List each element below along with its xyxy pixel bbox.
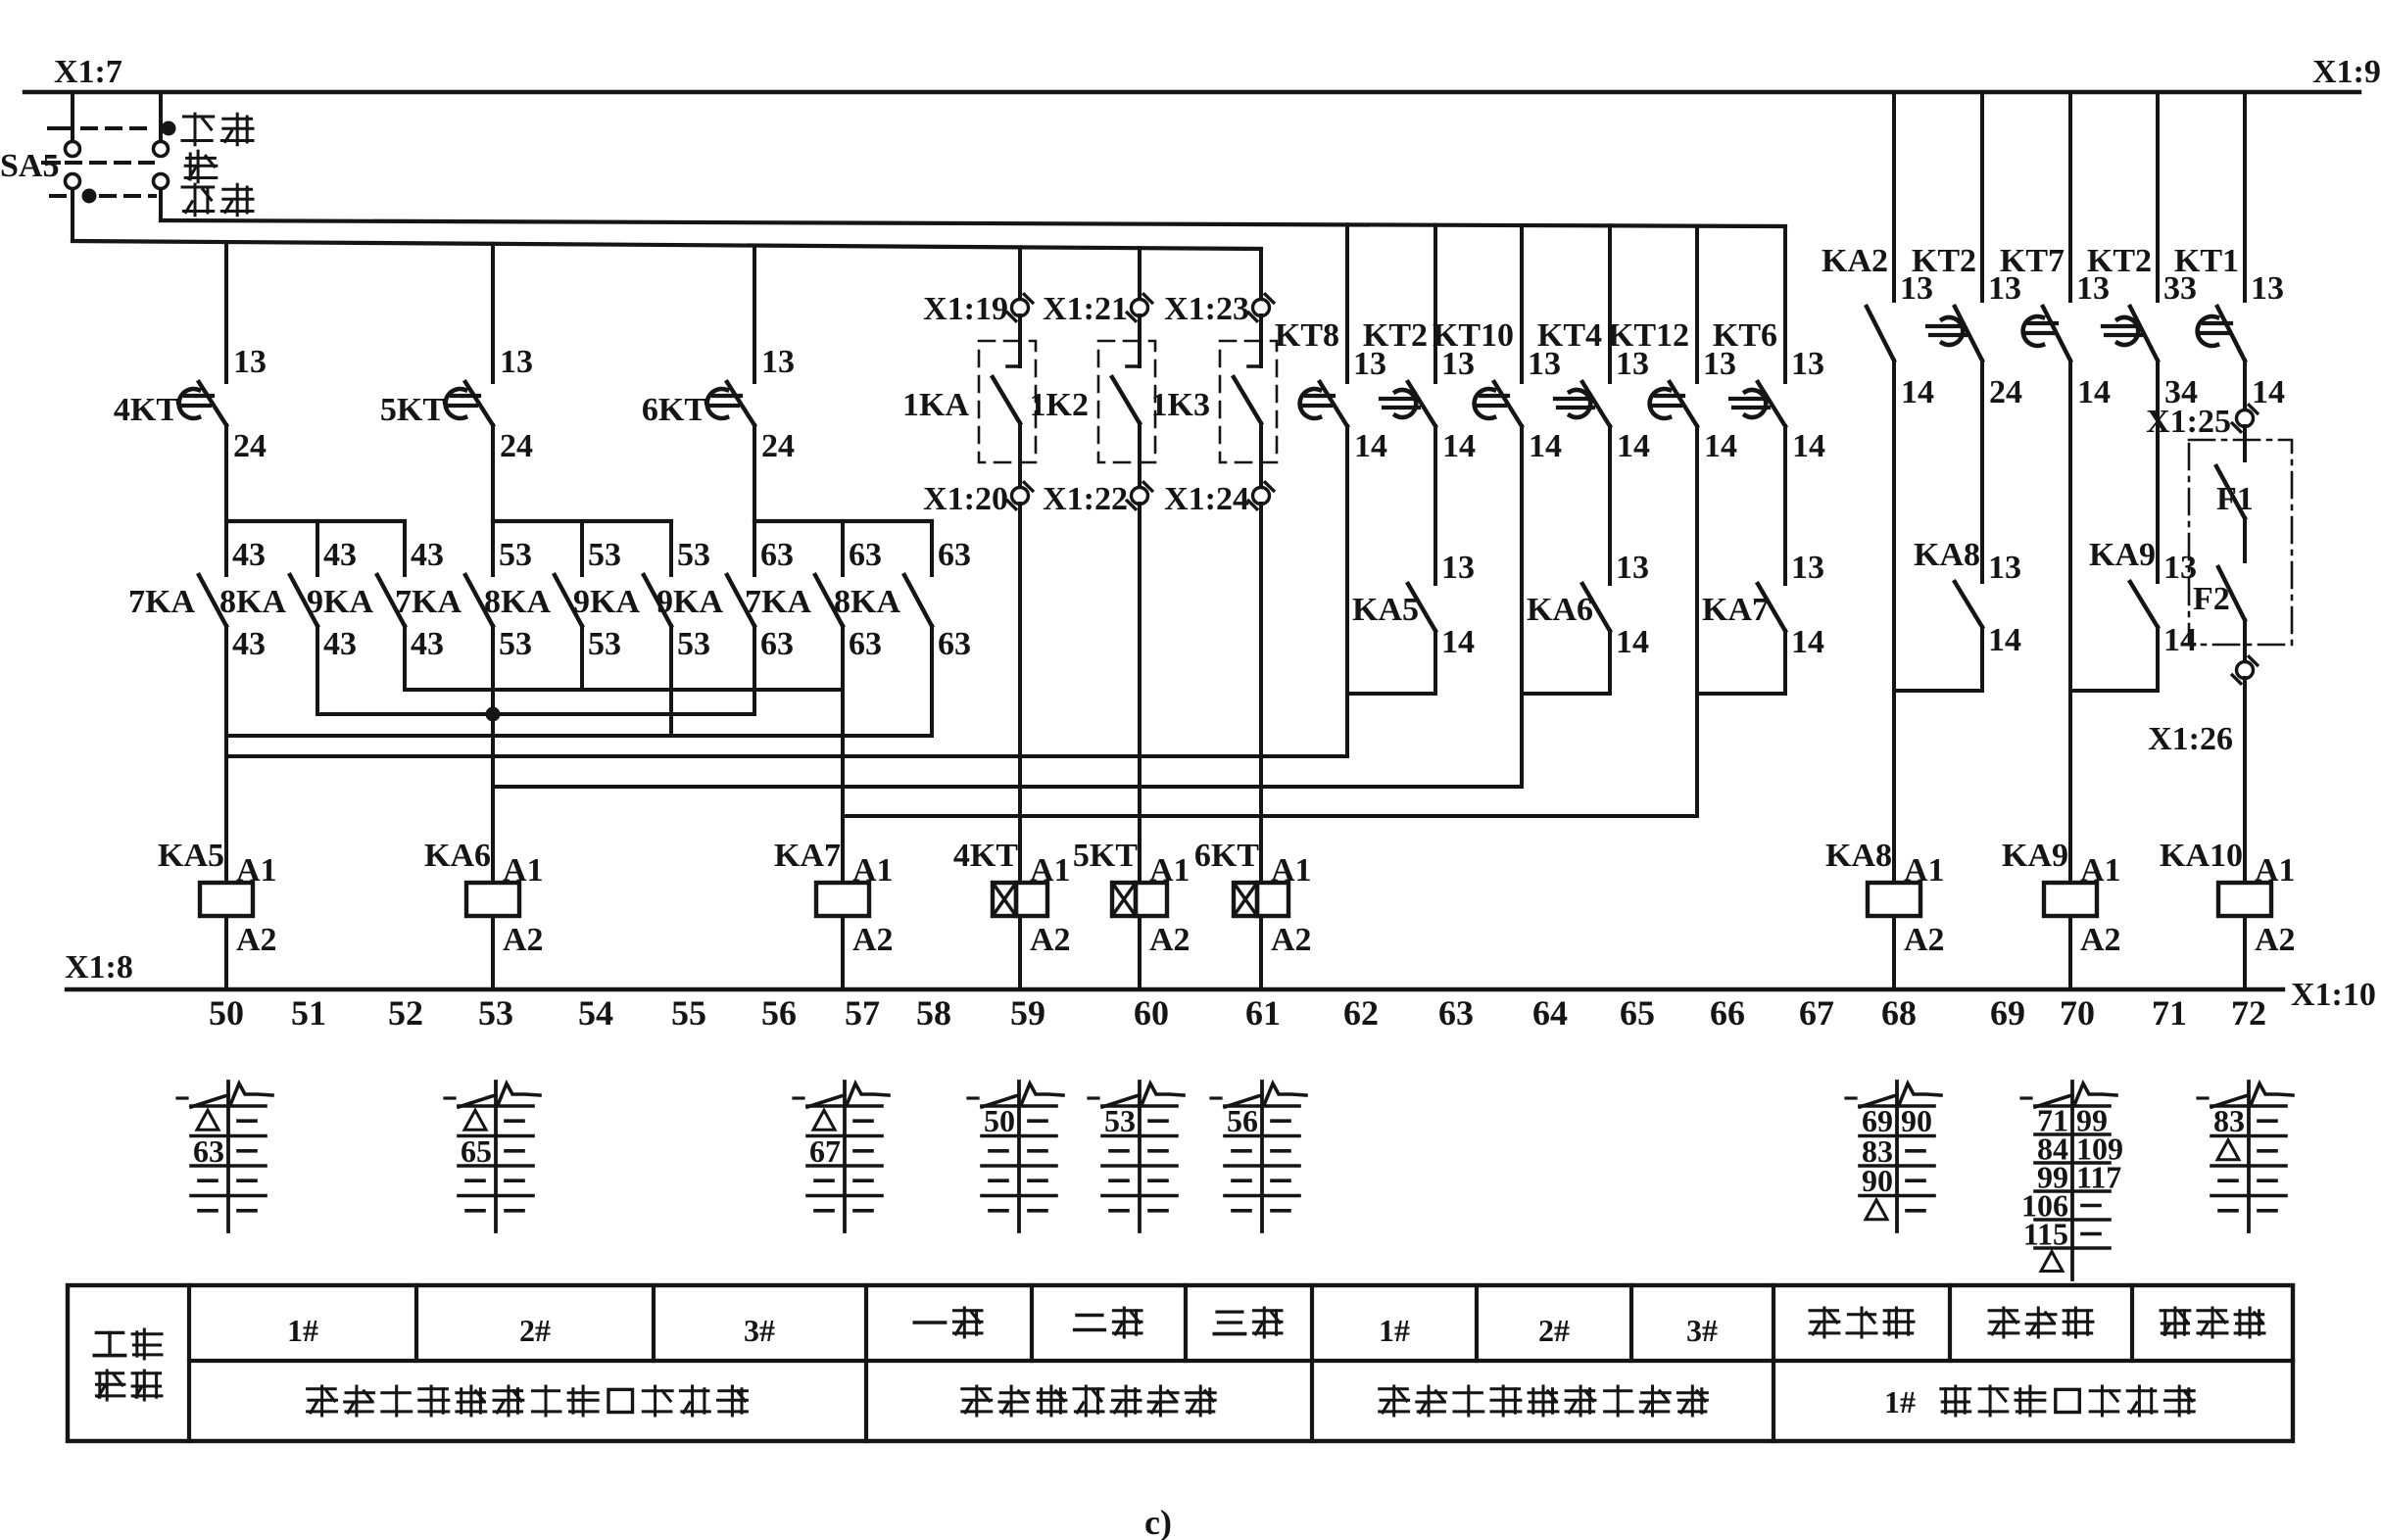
svg-text:14: 14	[1616, 624, 1649, 660]
svg-text:KT10: KT10	[1433, 317, 1514, 354]
wire: branch bus of 5KT group	[493, 519, 671, 523]
terminal X1:26	[2148, 656, 2258, 883]
contact 9KA (63) in 6KT group	[656, 521, 794, 662]
svg-text:58: 58	[916, 993, 951, 1033]
svg-text:63: 63	[760, 537, 794, 573]
svg-text:X1:8: X1:8	[65, 949, 133, 986]
contact 7KA (43) in 4KT group	[128, 521, 266, 662]
svg-text:9KA: 9KA	[307, 584, 373, 620]
svg-text:KA10: KA10	[2160, 838, 2243, 874]
svg-text:59: 59	[1010, 993, 1045, 1033]
svg-text:KA2: KA2	[1822, 243, 1888, 279]
terminal X1:23	[1164, 249, 1274, 327]
table cell 工况选择	[94, 1329, 162, 1400]
svg-text:90: 90	[1901, 1103, 1932, 1138]
svg-text:53: 53	[677, 537, 710, 573]
wire: KA5 column down to coil	[224, 626, 228, 883]
svg-text:1K2: 1K2	[1030, 387, 1089, 423]
table cell 冷却塔风机转换环节	[1380, 1386, 1708, 1416]
svg-text:9KA: 9KA	[573, 584, 640, 620]
interlock contact 1K2 (dashed box)	[1030, 315, 1155, 488]
table cell 1#(b)	[1379, 1313, 1410, 1348]
svg-text:KA9: KA9	[2089, 537, 2156, 573]
contact KT10 (timed, 13-14)	[1433, 225, 1562, 464]
table cell 2#(b)	[1538, 1313, 1570, 1348]
svg-text:63: 63	[760, 626, 794, 662]
svg-text:83: 83	[2213, 1103, 2245, 1138]
wire: KA7 column down to coil	[841, 626, 845, 883]
terminal X1:20	[923, 481, 1033, 883]
svg-text:67: 67	[809, 1133, 841, 1169]
svg-text:KT8: KT8	[1275, 317, 1339, 354]
contact 5KT (delayed NO, 13-24)	[380, 244, 533, 521]
svg-text:65: 65	[461, 1133, 492, 1169]
coil KA10	[2160, 838, 2296, 989]
coil KA7	[774, 838, 894, 989]
coil 5KT (time relay)	[1073, 838, 1190, 989]
svg-text:64: 64	[1532, 993, 1568, 1033]
terminal X1:25	[2146, 361, 2258, 440]
svg-text:62: 62	[1343, 993, 1379, 1033]
svg-text:71: 71	[2152, 993, 2187, 1033]
svg-text:14: 14	[1988, 622, 2021, 658]
contact 9KA (43) in 4KT group	[307, 521, 444, 662]
svg-text:61: 61	[1245, 993, 1281, 1033]
table cell 冷却泵	[1989, 1308, 2093, 1337]
caption c)	[1144, 1503, 1172, 1540]
svg-text:6KT: 6KT	[642, 392, 706, 428]
contact KT12 (timed, 13-14)	[1608, 226, 1737, 464]
switch SA5 (3-position selector)	[43, 92, 176, 241]
svg-text:70: 70	[2060, 993, 2095, 1033]
contact KT2 (13-24)	[1912, 92, 2022, 410]
contact KT6 (timed, 13-14)	[1713, 226, 1825, 464]
svg-text:63: 63	[1438, 993, 1474, 1033]
svg-text:43: 43	[411, 626, 444, 662]
cross-ref table KA9	[2021, 1082, 2123, 1279]
svg-text:13: 13	[2163, 550, 2197, 586]
svg-text:3#: 3#	[744, 1313, 775, 1348]
svg-text:X1:24: X1:24	[1164, 481, 1249, 517]
svg-text:X1:26: X1:26	[2148, 721, 2233, 757]
svg-text:KT12: KT12	[1608, 317, 1689, 354]
svg-text:1#: 1#	[1884, 1384, 1916, 1420]
wire: top supply rail X1:7 to X1:9	[24, 90, 2359, 94]
coil 6KT (time relay)	[1194, 838, 1312, 989]
svg-text:53: 53	[588, 537, 621, 573]
cross-ref table 5KT	[1089, 1082, 1184, 1231]
cross-ref table KA10	[2198, 1082, 2293, 1231]
svg-text:KA7: KA7	[774, 838, 841, 874]
wire: KA7 to KT12-branch (L6)	[843, 814, 1697, 818]
cross-ref table KA6	[445, 1082, 540, 1231]
svg-text:14: 14	[1791, 624, 1824, 660]
svg-text:14: 14	[1901, 374, 1934, 410]
svg-text:5KT: 5KT	[380, 392, 445, 428]
table cell 1#(a)	[287, 1313, 318, 1348]
svg-text:53: 53	[499, 537, 532, 573]
svg-text:52: 52	[388, 993, 423, 1033]
svg-text:X1:19: X1:19	[923, 291, 1008, 327]
svg-text:X1:22: X1:22	[1043, 481, 1128, 517]
terminal label X1:7	[54, 54, 122, 90]
svg-text:14: 14	[1792, 428, 1825, 464]
svg-text:53: 53	[478, 993, 513, 1033]
svg-text:8KA: 8KA	[834, 584, 900, 620]
svg-text:53: 53	[677, 626, 710, 662]
svg-text:KA8: KA8	[1825, 838, 1892, 874]
wire: bottom rail X1:8 to X1:10	[67, 987, 2283, 991]
svg-text:KT2: KT2	[2087, 243, 2152, 279]
svg-text:56: 56	[761, 993, 797, 1033]
svg-text:A2: A2	[1904, 922, 1945, 958]
wire: KT8 column to L4	[1345, 426, 1349, 756]
svg-text:4KT: 4KT	[953, 838, 1018, 874]
svg-text:8KA: 8KA	[219, 584, 286, 620]
label 停	[185, 151, 217, 182]
wire: bus line B (from SA5 row-3)	[73, 241, 1261, 249]
interlock contact 1K3 (dashed box)	[1151, 315, 1277, 488]
svg-text:4KT: 4KT	[114, 392, 178, 428]
svg-text:50: 50	[209, 993, 244, 1033]
svg-text:2#: 2#	[519, 1313, 551, 1348]
contact KA2 (13-14)	[1822, 92, 1934, 410]
contact 6KT (delayed NO, 13-24)	[642, 246, 795, 521]
svg-text:KA9: KA9	[2002, 838, 2068, 874]
contact 4KT (delayed NO, 13-24)	[114, 242, 267, 521]
svg-text:1KA: 1KA	[902, 387, 969, 423]
contact 8KA (53) in 5KT group	[484, 521, 621, 662]
protection contacts F1, F2 (dash-dot box)	[2189, 426, 2292, 662]
wire: KT12 column to L6	[1695, 426, 1699, 816]
contact KT1 (13-14)	[2174, 92, 2285, 410]
svg-text:14: 14	[1617, 428, 1650, 464]
table cell 2#(a)	[519, 1313, 551, 1348]
svg-text:54: 54	[578, 993, 613, 1033]
wire: 8KA(43)-KA6-9KA(63) link (L2)	[317, 626, 754, 722]
contact KA6 (seal-in, 13-14) with link wire	[1522, 426, 1649, 694]
svg-text:KA8: KA8	[1914, 537, 1980, 573]
terminal X1:19	[923, 247, 1033, 327]
svg-text:115: 115	[2023, 1217, 2068, 1252]
svg-text:X1:23: X1:23	[1164, 291, 1249, 327]
svg-text:90: 90	[1862, 1163, 1893, 1198]
contact KT4 (timed, 13-14)	[1537, 225, 1650, 464]
svg-text:14: 14	[1441, 624, 1475, 660]
svg-text:24: 24	[233, 428, 267, 464]
contact 7KA (53) in 5KT group	[395, 521, 532, 662]
svg-text:14: 14	[2252, 374, 2285, 410]
wire: KA5 to KT8-branch (L4)	[226, 754, 1347, 758]
svg-text:67: 67	[1799, 993, 1834, 1033]
svg-text:117: 117	[2076, 1160, 2121, 1195]
svg-text:X1:10: X1:10	[2291, 977, 2376, 1013]
svg-text:43: 43	[232, 626, 266, 662]
svg-text:63: 63	[938, 537, 971, 573]
wire: KA2 column down to KA8 coil	[1892, 361, 1896, 883]
svg-text:13: 13	[1791, 550, 1824, 586]
svg-text:68: 68	[1881, 993, 1917, 1033]
cross-ref table KA8	[1846, 1082, 1941, 1231]
table cell 制冷机	[2161, 1308, 2264, 1337]
svg-text:24: 24	[500, 428, 533, 464]
svg-text:24: 24	[761, 428, 795, 464]
svg-text:KA5: KA5	[1352, 592, 1419, 628]
svg-text:69: 69	[1990, 993, 2025, 1033]
svg-text:13: 13	[500, 344, 533, 380]
terminal label X1:10	[2291, 977, 2376, 1013]
svg-text:13: 13	[1616, 550, 1649, 586]
svg-text:60: 60	[1134, 993, 1169, 1033]
svg-text:13: 13	[233, 344, 267, 380]
svg-text:KT2: KT2	[1912, 243, 1976, 279]
svg-text:72: 72	[2231, 993, 2266, 1033]
svg-text:A2: A2	[852, 922, 894, 958]
svg-text:14: 14	[1442, 428, 1476, 464]
terminal X1:24	[1164, 481, 1274, 883]
contact 8KA (63) in 6KT group	[834, 521, 971, 662]
wire: KA6 to KT10-branch (L5)	[493, 785, 1522, 789]
svg-text:7KA: 7KA	[745, 584, 811, 620]
svg-text:13: 13	[1791, 346, 1824, 382]
terminal label X1:9	[2312, 54, 2381, 90]
contact KA8 (seal-in) with link wire	[1894, 361, 2021, 691]
terminal X1:22	[1043, 481, 1152, 883]
svg-text:A2: A2	[2080, 922, 2121, 958]
svg-text:66: 66	[1710, 993, 1745, 1033]
svg-text:5KT: 5KT	[1073, 838, 1138, 874]
contact 7KA (63) in 6KT group	[745, 521, 882, 662]
cross-ref table 4KT	[968, 1082, 1063, 1231]
coil KA6	[424, 838, 544, 989]
svg-text:43: 43	[232, 537, 266, 573]
coil KA8	[1825, 838, 1945, 989]
cross-ref table KA5	[177, 1082, 272, 1231]
cross-ref table KA7	[794, 1082, 889, 1231]
svg-text:56: 56	[1227, 1103, 1258, 1138]
svg-text:57: 57	[845, 993, 880, 1033]
svg-text:KA5: KA5	[158, 838, 224, 874]
svg-text:A2: A2	[2255, 922, 2296, 958]
svg-text:A2: A2	[236, 922, 277, 958]
svg-text:14: 14	[1354, 428, 1387, 464]
svg-text:8KA: 8KA	[484, 584, 551, 620]
svg-text:X1:25: X1:25	[2146, 404, 2231, 440]
svg-text:53: 53	[1104, 1103, 1136, 1138]
svg-text:A2: A2	[1149, 922, 1190, 958]
table cell 冷却水温控环节	[962, 1386, 1215, 1416]
svg-text:43: 43	[323, 626, 357, 662]
svg-text:63: 63	[193, 1133, 224, 1169]
svg-text:51: 51	[291, 993, 326, 1033]
svg-text:65: 65	[1620, 993, 1655, 1033]
wire: KA5-9KA(53)-8KA(63) link (L3)	[226, 626, 932, 736]
svg-text:KA7: KA7	[1702, 592, 1769, 628]
wire: branch bus of 6KT group	[754, 519, 932, 523]
svg-text:7KA: 7KA	[395, 584, 462, 620]
label 顺控	[182, 114, 253, 145]
contact KA9 (seal-in) with link wire	[2070, 361, 2197, 691]
svg-text:X1:21: X1:21	[1043, 291, 1128, 327]
svg-text:13: 13	[761, 344, 795, 380]
wire: branch bus of 4KT group	[226, 519, 405, 523]
svg-text:KA6: KA6	[1527, 592, 1593, 628]
wire: bus line A (from SA5 row-1)	[161, 220, 1785, 226]
svg-text:14: 14	[1529, 428, 1562, 464]
contact KT8 (timed, 13-14)	[1275, 224, 1387, 464]
svg-text:6KT: 6KT	[1194, 838, 1259, 874]
svg-text:55: 55	[671, 993, 706, 1033]
svg-text:KT4: KT4	[1537, 317, 1602, 354]
contact 9KA (53) in 5KT group	[573, 521, 710, 662]
svg-text:KT2: KT2	[1363, 317, 1428, 354]
table cell 冷却塔风机转换出口继电器	[308, 1386, 748, 1416]
svg-text:SA5: SA5	[0, 148, 59, 184]
wire: KT7 column down to KA9 coil	[2068, 361, 2072, 883]
svg-text:A2: A2	[1271, 922, 1312, 958]
svg-text:43: 43	[411, 537, 444, 573]
contact KT2 (timed, 13-14)	[1363, 225, 1476, 464]
coil KA5	[158, 838, 277, 989]
svg-text:A2: A2	[503, 922, 544, 958]
svg-text:53: 53	[588, 626, 621, 662]
svg-text:7KA: 7KA	[128, 584, 195, 620]
svg-text:3#: 3#	[1686, 1313, 1718, 1348]
svg-text:KA6: KA6	[424, 838, 491, 874]
table cell 3#(a)	[744, 1313, 775, 1348]
table cell 二步	[1075, 1308, 1142, 1337]
wire: KT10 column to L5	[1520, 426, 1524, 787]
svg-text:13: 13	[2251, 270, 2284, 307]
svg-text:14: 14	[2077, 374, 2111, 410]
svg-text:X1:7: X1:7	[54, 54, 122, 90]
function table grid	[68, 1285, 2293, 1441]
contact KT7 (13-14)	[2000, 92, 2111, 410]
svg-text:14: 14	[2163, 622, 2197, 658]
svg-text:50: 50	[984, 1103, 1015, 1138]
terminal X1:21	[1043, 248, 1152, 327]
svg-text:F1: F1	[2216, 481, 2254, 517]
coil 4KT (time relay)	[953, 838, 1071, 989]
svg-text:43: 43	[323, 537, 357, 573]
svg-text:KT6: KT6	[1713, 317, 1777, 354]
svg-text:13: 13	[1988, 550, 2021, 586]
svg-text:63: 63	[849, 537, 882, 573]
contact KT2 (33-34)	[2087, 92, 2198, 410]
svg-text:c): c)	[1144, 1503, 1172, 1540]
svg-text:13: 13	[1441, 550, 1475, 586]
table cell 一步	[914, 1308, 982, 1337]
label SA5	[0, 148, 59, 184]
table cell 三步	[1214, 1308, 1282, 1337]
svg-text:1#: 1#	[287, 1313, 318, 1348]
svg-text:X1:9: X1:9	[2312, 54, 2381, 90]
table cell 3#(b)	[1686, 1313, 1718, 1348]
svg-text:KT7: KT7	[2000, 243, 2065, 279]
coil KA9	[2002, 838, 2121, 989]
svg-text:14: 14	[1704, 428, 1737, 464]
svg-text:X1:20: X1:20	[923, 481, 1008, 517]
table cell 1#系统出口继电器	[1884, 1384, 2194, 1420]
interlock contact 1KA (dashed box)	[902, 315, 1036, 488]
svg-text:1K3: 1K3	[1151, 387, 1210, 423]
wire: KA6 column down to coil	[491, 626, 495, 883]
svg-text:1#: 1#	[1379, 1313, 1410, 1348]
terminal label X1:8	[65, 949, 133, 986]
svg-text:F2: F2	[2193, 581, 2230, 617]
svg-text:KT1: KT1	[2174, 243, 2239, 279]
svg-text:9KA: 9KA	[656, 584, 723, 620]
label 温控	[182, 184, 253, 216]
svg-text:2#: 2#	[1538, 1313, 1570, 1348]
contact 8KA (43) in 4KT group	[219, 521, 357, 662]
svg-text:63: 63	[849, 626, 882, 662]
svg-text:63: 63	[938, 626, 971, 662]
table cell 冷冻泵	[1810, 1308, 1914, 1337]
terminal numbers 50-72	[209, 993, 2266, 1033]
svg-text:24: 24	[1989, 374, 2022, 410]
svg-text:A2: A2	[1030, 922, 1071, 958]
contact KA7 (seal-in, 13-14) with link wire	[1697, 426, 1824, 694]
contact KA5 (seal-in, 13-14) with link wire	[1347, 426, 1475, 694]
cross-ref table 6KT	[1211, 1082, 1306, 1231]
wire: 9KA(43)-8KA(53)-KA7 link (L1)	[405, 626, 843, 690]
svg-text:53: 53	[499, 626, 532, 662]
